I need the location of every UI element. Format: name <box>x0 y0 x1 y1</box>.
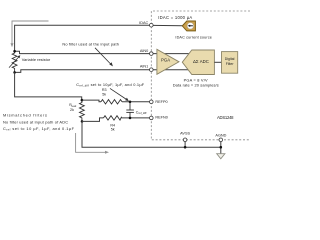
ground symbol <box>217 154 225 159</box>
terminal AIN1 <box>150 68 154 72</box>
svg-text:Filter: Filter <box>226 62 235 66</box>
variable resistor arrow <box>9 55 20 67</box>
svg-text:IDAC: IDAC <box>139 21 148 25</box>
node: var resistor top junction <box>13 50 16 53</box>
node AVSS on rail <box>184 146 187 149</box>
terminal REFP0 <box>150 100 154 104</box>
svg-text:Variable resistor: Variable resistor <box>22 57 51 62</box>
AGND pin stub <box>220 142 222 154</box>
svg-text:Digital: Digital <box>225 57 235 61</box>
svg-text:AIN1: AIN1 <box>140 64 148 68</box>
wire R4 to REFN0 <box>122 117 150 119</box>
svg-text:Data rate = 20 samples/s: Data rate = 20 samples/s <box>173 82 219 87</box>
IDAC current source U-icon <box>182 21 195 31</box>
wire R3 to REFP0 <box>122 101 150 103</box>
svg-text:Mismatched filters: Mismatched filters <box>3 113 47 118</box>
wire Rlead bottom to ground rail <box>82 121 221 147</box>
terminal AVSS <box>183 138 187 142</box>
svg-text:No filter used at the input pa: No filter used at the input path <box>62 42 119 47</box>
svg-text:ΔΣ ADC: ΔΣ ADC <box>193 59 209 64</box>
ADC block (delta-sigma) <box>182 50 214 75</box>
terminal AGND <box>219 138 223 142</box>
current direction arrow (top-left, IDAC excitation current) <box>11 21 49 47</box>
svg-text:ADS1248: ADS1248 <box>217 115 234 120</box>
AVSS pin stub <box>184 142 186 148</box>
svg-text:Cref set to 10 µF, 1µF, and 0.: Cref set to 10 µF, 1µF, and 0.1µF <box>3 126 75 132</box>
terminal REFN0 <box>150 116 154 120</box>
wire IDAC terminal to left rail <box>15 25 150 50</box>
resistor R4 <box>104 116 122 120</box>
wire ADC to digital filter <box>214 61 221 63</box>
wire REFN0 row <box>82 118 104 122</box>
resistor R3 <box>101 100 122 104</box>
dashed IC boundary ADS1248 <box>151 11 250 140</box>
node: cap top junction <box>129 101 132 104</box>
svg-text:No filter used at input path o: No filter used at input path of ADC <box>3 119 68 124</box>
current direction arrow (bottom, return current) <box>76 133 109 154</box>
wire AIN0 into PGA/ADC <box>153 53 190 55</box>
variable resistor RTD <box>12 51 17 72</box>
resistor Rlead (vertical) <box>80 100 85 121</box>
svg-text:5k: 5k <box>102 92 106 96</box>
svg-text:IDAC = 1000 µA: IDAC = 1000 µA <box>158 15 192 20</box>
svg-text:AVSS: AVSS <box>180 132 190 136</box>
svg-text:AIN0: AIN0 <box>140 49 148 53</box>
wire AIN1 into PGA/ADC <box>153 69 190 71</box>
op-amp PGA triangle <box>157 49 179 74</box>
node: Rlead top junction <box>81 99 84 102</box>
wire IDAC terminal to current source icon <box>153 24 182 26</box>
svg-text:PGA: PGA <box>161 57 170 62</box>
svg-text:REFN0: REFN0 <box>155 116 167 120</box>
svg-text:REFP0: REFP0 <box>155 100 167 104</box>
svg-text:5k: 5k <box>111 127 115 131</box>
wire AIN1 row <box>15 70 150 73</box>
digital filter block <box>222 52 238 74</box>
node: var resistor bottom junction <box>13 71 16 74</box>
node: cap bottom junction <box>129 117 132 120</box>
wire AIN0 row <box>15 51 150 53</box>
annotation arrow: Cref setting <box>110 88 129 101</box>
terminal IDAC <box>150 23 154 27</box>
capacitor Cref_diff <box>126 102 134 118</box>
node AGND on rail <box>220 146 223 149</box>
wire left rail down to Rlead <box>15 72 82 99</box>
svg-text:IDAC current source: IDAC current source <box>175 35 212 39</box>
terminal AIN0 <box>150 52 154 56</box>
wire REFP0 row <box>82 100 101 102</box>
svg-text:2k: 2k <box>70 108 74 112</box>
node: Rlead bottom junction <box>81 120 84 123</box>
annotation arrow: no input filter <box>95 48 113 67</box>
svg-text:AGND: AGND <box>215 133 226 137</box>
